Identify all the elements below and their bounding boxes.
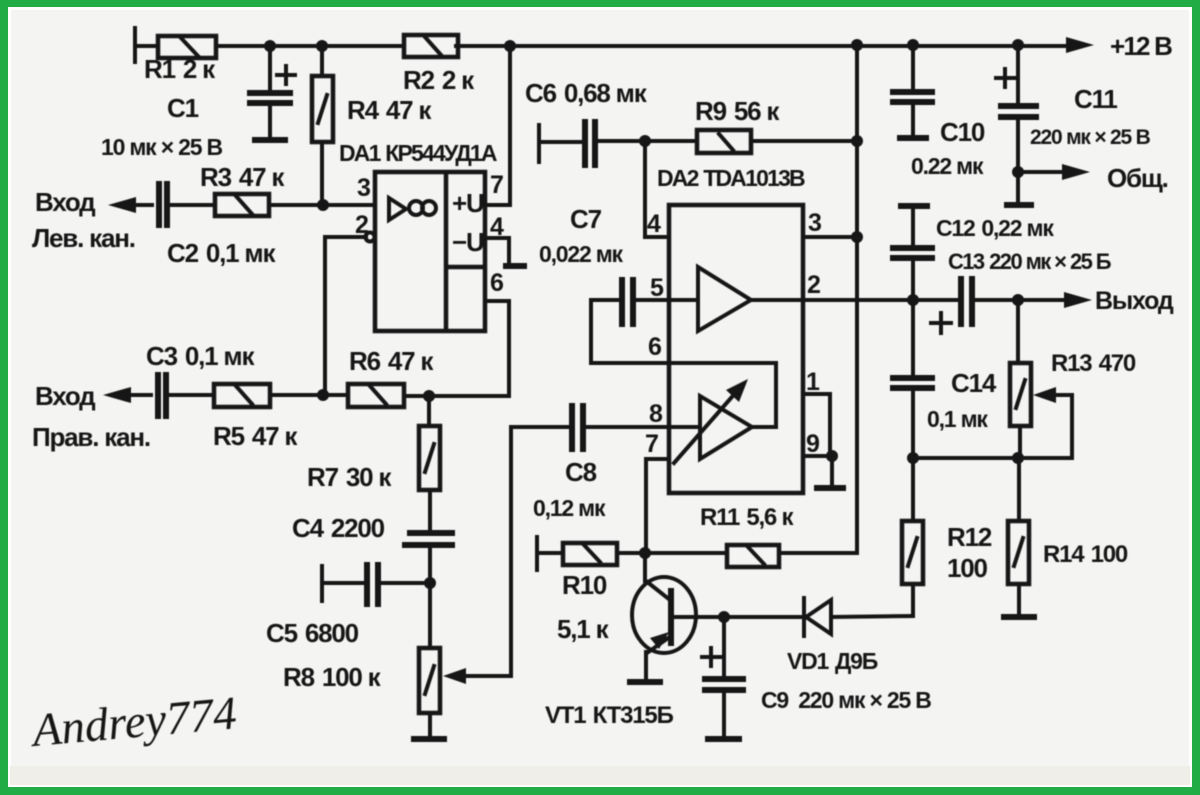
svg-text:0,1 мк: 0,1 мк — [927, 406, 988, 432]
svg-text:5,1 к: 5,1 к — [557, 614, 610, 644]
svg-text:С9 220 мк × 25 В: С9 220 мк × 25 В — [761, 687, 931, 713]
svg-text:VT1 КТ315Б: VT1 КТ315Б — [545, 702, 674, 729]
svg-text:С1: С1 — [167, 93, 199, 123]
resistor R12 — [902, 458, 923, 616]
resistor R5 — [214, 384, 348, 407]
svg-text:С3 0,1 мк: С3 0,1 мк — [146, 341, 255, 371]
svg-text:6: 6 — [490, 269, 503, 297]
svg-text:С6 0,68 мк: С6 0,68 мк — [525, 78, 648, 108]
node: junction output/R13 — [1012, 294, 1024, 306]
wire: DA2 pin 4 stub — [645, 141, 669, 237]
svg-text:R4 47 к: R4 47 к — [347, 95, 432, 125]
svg-text:С2 0,1 мк: С2 0,1 мк — [167, 238, 276, 268]
svg-text:R13 470: R13 470 — [1051, 350, 1136, 377]
wire: DA1 pin 2 inverting input with bubble — [325, 233, 375, 396]
node: junction R5/R6/pin2 — [317, 389, 329, 401]
svg-text:Вход: Вход — [35, 381, 96, 411]
svg-text:R10: R10 — [562, 570, 607, 600]
svg-text:Вход: Вход — [35, 187, 96, 217]
svg-text:6: 6 — [648, 333, 661, 361]
node: junction C11/Obshch — [1012, 166, 1024, 178]
resistor R7 — [419, 396, 440, 532]
wire: DA2 pin1/pin9 to ground — [803, 394, 832, 486]
potentiometer R8 — [419, 583, 440, 736]
potentiometer R13 — [1010, 300, 1031, 458]
node: junction rail/C10 — [907, 39, 919, 51]
svg-text:5: 5 — [650, 274, 664, 302]
ground: VT1 emitter ground bar — [627, 679, 663, 685]
Vyhod arrow — [1064, 292, 1092, 308]
wire: rail to DA1 pin 7 — [508, 46, 512, 205]
ground: C10 ground bar — [897, 135, 929, 141]
node: junction rail/C11 — [1012, 39, 1024, 51]
ground: C9 ground bar — [705, 736, 742, 742]
capacitor C14 — [890, 300, 935, 458]
node: junction rail/C1 — [264, 40, 276, 52]
resistor R2 — [404, 35, 458, 57]
svg-text:10 мк × 25 В: 10 мк × 25 В — [101, 134, 222, 160]
svg-text:100: 100 — [947, 553, 988, 583]
svg-text:С13 220 мк × 25 Б: С13 220 мк × 25 Б — [948, 249, 1112, 274]
svg-text:R11 5,6 к: R11 5,6 к — [700, 504, 795, 531]
wire: DA2 pin 7 stub down — [646, 459, 669, 553]
node: junction R13/R14 — [1012, 452, 1024, 464]
svg-text:R1 2 к: R1 2 к — [144, 54, 216, 84]
svg-text:2: 2 — [807, 271, 820, 299]
svg-text:DA1 КР544УД1А: DA1 КР544УД1А — [339, 140, 497, 166]
svg-text:R2 2 к: R2 2 к — [403, 65, 475, 95]
capacitor C10 — [890, 45, 935, 135]
op-amp DA1 — [375, 172, 485, 331]
resistor R1 — [158, 36, 216, 58]
node: junction C14/R12 — [907, 452, 919, 464]
wire: DA1 pin 6 stub down to feedback row — [429, 301, 509, 396]
node: junction R9/feedback — [851, 135, 863, 147]
node: junction rail/pin7 wire — [504, 40, 516, 52]
svg-text:0.22 мк: 0.22 мк — [911, 153, 984, 179]
svg-text:7: 7 — [490, 171, 503, 199]
node: junction R10/R11/pin7/VT1 — [639, 547, 651, 559]
node: junction rail/feedback — [851, 39, 863, 51]
svg-text:0,022 мк: 0,022 мк — [539, 241, 624, 267]
capacitor C2 — [159, 181, 215, 228]
svg-text:С7: С7 — [570, 204, 602, 234]
node: junction R6/R7 — [423, 390, 435, 402]
svg-text:R14 100: R14 100 — [1043, 541, 1128, 568]
capacitor C11 — [996, 45, 1039, 202]
svg-text:7: 7 — [645, 430, 658, 458]
amplifier DA2 — [669, 205, 803, 493]
svg-text:1: 1 — [806, 368, 820, 396]
resistor R14 — [1008, 458, 1029, 614]
wiper arrow R13 — [1033, 387, 1072, 458]
resistor R9 — [645, 130, 857, 153]
svg-text:Лев. кан.: Лев. кан. — [32, 223, 135, 253]
svg-text:Прав. кан.: Прав. кан. — [32, 422, 150, 452]
diode VD1 — [724, 598, 912, 636]
svg-text:−U: −U — [452, 227, 484, 257]
ground: R8 ground bar — [411, 736, 447, 742]
capacitor C5 — [322, 562, 430, 607]
svg-text:С10: С10 — [940, 117, 985, 147]
capacitor C3 — [158, 372, 214, 419]
svg-text:4: 4 — [647, 210, 661, 238]
capacitor C1 — [247, 46, 295, 137]
svg-text:R7 30 к: R7 30 к — [307, 462, 392, 492]
svg-text:Общ.: Общ. — [1107, 163, 1168, 193]
ground: DA2 pin 9 ground bar — [814, 485, 846, 491]
wiper arrow R8 — [443, 427, 511, 684]
input arrow right channel — [103, 387, 151, 403]
svg-text:R8 100 к: R8 100 к — [283, 662, 382, 692]
svg-text:3: 3 — [357, 174, 370, 202]
ground: DA1 pin 4 ground bar — [503, 263, 527, 269]
wire: DA1 pin 7 stub — [485, 203, 510, 207]
node: junction pin9/ground — [826, 450, 838, 462]
resistor R6 — [348, 384, 509, 407]
capacitor C6 — [539, 119, 645, 168]
resistor R4 — [312, 46, 333, 205]
input arrow left channel — [108, 197, 152, 213]
svg-text:С14: С14 — [951, 368, 997, 398]
wire: DA1 pin 4 stub to ground — [485, 238, 509, 264]
svg-text:DA2 TDA1013В: DA2 TDA1013В — [657, 165, 805, 191]
Obshch arrow — [1018, 164, 1090, 180]
capacitor C7 — [591, 277, 669, 363]
svg-text:220 мк × 25 В: 220 мк × 25 В — [1030, 126, 1151, 149]
wire: DA2 pin 3 stub — [803, 235, 857, 239]
capacitor C13 — [931, 276, 1063, 333]
wire: R12/R14 top row — [913, 456, 1072, 460]
svg-text:VD1 Д9Б: VD1 Д9Б — [787, 648, 878, 674]
capacitor C9 — [702, 617, 746, 736]
capacitor C4 — [402, 533, 455, 583]
svg-text:+U: +U — [452, 188, 484, 218]
node: junction base/C9/VD1 — [718, 611, 730, 623]
svg-text:9: 9 — [806, 430, 819, 458]
node: junction C4/C5/R8 — [424, 577, 436, 589]
node: junction pin3/feedback — [851, 231, 863, 243]
svg-text:С8: С8 — [565, 457, 597, 487]
wire: +12V top rail — [136, 44, 1068, 48]
resistor R11 — [645, 545, 857, 567]
svg-text:R5 47 к: R5 47 к — [213, 421, 298, 451]
transistor VT1 — [632, 553, 724, 680]
+12 V arrow — [1066, 37, 1094, 53]
capacitor C12 — [890, 206, 935, 300]
svg-text:Выход: Выход — [1095, 287, 1174, 315]
ground: C1 ground bar — [252, 137, 288, 143]
svg-text:0,12 мк: 0,12 мк — [533, 495, 606, 521]
svg-text:С4 2200: С4 2200 — [292, 513, 385, 543]
svg-text:С12 0,22 мк: С12 0,22 мк — [936, 215, 1054, 241]
svg-text:+12 В: +12 В — [1110, 31, 1172, 61]
svg-text:R12: R12 — [947, 522, 992, 552]
node: rail start terminal tick — [133, 28, 137, 62]
node: junction output/C12/C14 — [907, 294, 919, 306]
node: junction R3/R4/pin3 — [317, 199, 329, 211]
node: junction C6/R9/pin4 — [639, 135, 651, 147]
svg-text:С11: С11 — [1074, 84, 1117, 114]
svg-text:R3 47 к: R3 47 к — [200, 162, 285, 192]
resistor R10 — [537, 537, 645, 570]
svg-text:8: 8 — [649, 400, 663, 428]
svg-text:R6 47 к: R6 47 к — [349, 346, 434, 376]
ground: R14 ground bar — [1001, 614, 1037, 620]
node: junction rail/R4 — [316, 40, 328, 52]
svg-text:С5 6800: С5 6800 — [266, 618, 359, 648]
svg-text:3: 3 — [808, 209, 821, 237]
wire: feedback column x857 — [855, 45, 859, 553]
wire: output row from DA2 pin 2 — [803, 298, 959, 302]
capacitor C8 — [511, 403, 669, 452]
resistor R3 — [215, 194, 375, 216]
ground: C11 ground bar — [1004, 202, 1034, 208]
svg-text:R9 56 к: R9 56 к — [695, 96, 780, 126]
